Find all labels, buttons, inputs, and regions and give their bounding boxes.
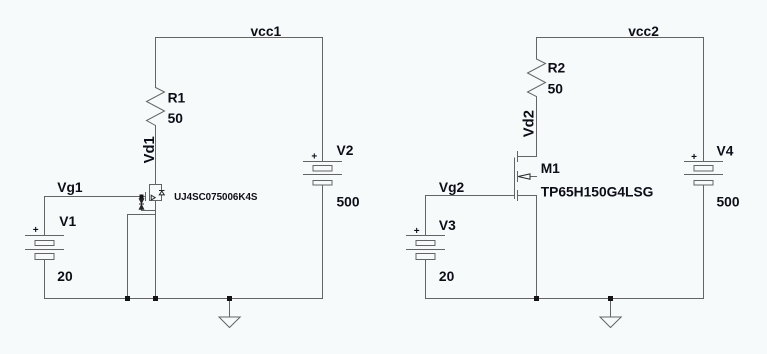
svg-text:+: +: [414, 226, 420, 237]
svg-text:20: 20: [57, 269, 73, 284]
svg-text:50: 50: [548, 81, 564, 96]
svg-text:+: +: [691, 152, 697, 163]
svg-text:Vd2: Vd2: [522, 110, 538, 137]
svg-text:R2: R2: [548, 61, 566, 76]
svg-text:+: +: [33, 225, 39, 236]
svg-text:R1: R1: [168, 90, 186, 105]
svg-text:vcc1: vcc1: [251, 24, 282, 39]
svg-text:Vg2: Vg2: [439, 180, 465, 195]
svg-text:Vg1: Vg1: [57, 180, 83, 195]
svg-text:vcc2: vcc2: [628, 24, 659, 39]
svg-text:500: 500: [717, 195, 740, 210]
svg-text:+: +: [311, 152, 317, 163]
svg-text:20: 20: [439, 269, 455, 284]
svg-text:V1: V1: [59, 214, 76, 229]
svg-text:V2: V2: [337, 143, 354, 158]
svg-text:M1: M1: [541, 161, 560, 176]
svg-text:UJ4SC075006K4S: UJ4SC075006K4S: [174, 192, 258, 203]
svg-text:Vd1: Vd1: [142, 136, 158, 163]
svg-text:V4: V4: [717, 144, 734, 159]
svg-text:V3: V3: [439, 218, 456, 233]
svg-text:50: 50: [168, 111, 184, 126]
svg-text:TP65H150G4LSG: TP65H150G4LSG: [541, 184, 654, 199]
svg-text:500: 500: [337, 195, 360, 210]
